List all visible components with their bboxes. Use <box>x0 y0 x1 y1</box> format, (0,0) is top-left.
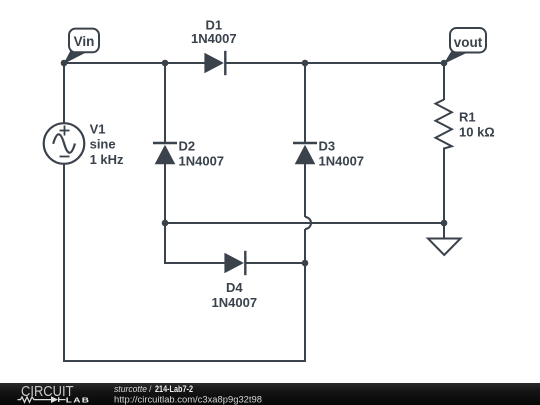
wire mid node down to D4 row <box>164 222 166 264</box>
svg-text:V1: V1 <box>90 122 106 137</box>
wire V1 bottom down left rail <box>63 164 65 362</box>
wire bottom horizontal <box>63 360 306 362</box>
voltage source V1 <box>44 122 124 167</box>
svg-text:R1: R1 <box>459 110 476 125</box>
svg-text:D4: D4 <box>226 280 243 295</box>
wire D4 junction down to bottom wire <box>304 262 306 362</box>
svg-text:Vin: Vin <box>74 34 95 49</box>
wire D4 cathode to right junction <box>246 262 306 264</box>
svg-text:214-Lab7-2: 214-Lab7-2 <box>155 384 193 394</box>
diode D2 <box>153 139 224 169</box>
svg-text:1N4007: 1N4007 <box>212 295 258 310</box>
wire hop over mid wire <box>305 217 311 229</box>
wire Vin node down to V1 top <box>63 62 65 124</box>
node label flag Vin <box>64 29 100 64</box>
wire top node to D2 cathode <box>164 62 166 143</box>
node vout junction <box>441 60 448 67</box>
wire mid horizontal (node to ground node) <box>164 222 445 224</box>
ground <box>428 223 461 255</box>
svg-text:sturcotte: sturcotte <box>114 384 147 394</box>
svg-text:1N4007: 1N4007 <box>191 31 237 46</box>
svg-text:http://circuitlab.com/c3xa8p9g: http://circuitlab.com/c3xa8p9g32t98 <box>114 394 262 405</box>
CircuitLab logo <box>18 384 91 405</box>
svg-text:1 kHz: 1 kHz <box>90 152 124 167</box>
wire D2 anode to mid node <box>164 164 166 224</box>
wire hop to D4 junction <box>304 229 306 263</box>
diode D1 <box>191 17 237 75</box>
node label flag vout <box>444 28 487 64</box>
resistor R1 <box>436 100 495 149</box>
node Vin junction <box>61 60 68 67</box>
wire D3 anode down to hop <box>304 164 306 217</box>
svg-text:vout: vout <box>454 35 483 50</box>
svg-text:sine: sine <box>90 137 116 152</box>
wire vout node to R1 top <box>443 62 445 100</box>
wire top node to D3 cathode <box>304 62 306 143</box>
diode D3 <box>293 139 364 169</box>
node mid-left junction <box>162 220 169 227</box>
svg-text:1N4007: 1N4007 <box>319 153 365 168</box>
node top D2 junction <box>162 60 169 67</box>
footer bar <box>0 383 540 405</box>
wire to D4 anode <box>164 262 225 264</box>
svg-text:D3: D3 <box>319 139 336 154</box>
svg-text:LAB: LAB <box>66 395 91 404</box>
svg-text:D2: D2 <box>179 139 196 154</box>
svg-text:D1: D1 <box>205 17 222 32</box>
wire R1 bottom to ground node <box>443 148 445 225</box>
node ground junction <box>441 220 448 227</box>
diode D4 <box>212 251 258 310</box>
wire D1 cathode to vout node <box>225 62 445 64</box>
wire Vin node to D1 anode <box>63 62 205 64</box>
svg-text:1N4007: 1N4007 <box>179 153 225 168</box>
node top D3 junction <box>302 60 309 67</box>
node D4 cathode junction <box>302 260 309 267</box>
svg-text:10 kΩ: 10 kΩ <box>459 124 495 139</box>
